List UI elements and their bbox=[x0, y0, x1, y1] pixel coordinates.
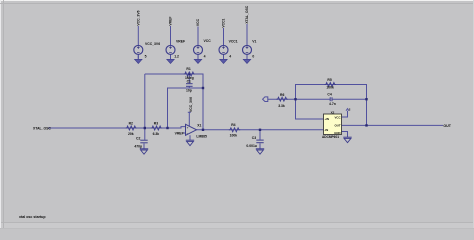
svg-text:VREF: VREF bbox=[175, 132, 184, 136]
svg-text:OUT: OUT bbox=[334, 124, 340, 128]
svg-text:X1: X1 bbox=[197, 124, 201, 128]
svg-text:C4: C4 bbox=[327, 92, 331, 96]
svg-text:0: 0 bbox=[252, 55, 254, 59]
svg-text:C3: C3 bbox=[252, 136, 256, 140]
svg-text:VREF: VREF bbox=[176, 40, 185, 44]
svg-text:OUT: OUT bbox=[443, 124, 451, 128]
svg-text:6.3k: 6.3k bbox=[153, 132, 160, 136]
svg-text:20k: 20k bbox=[128, 132, 134, 136]
svg-text:X2: X2 bbox=[331, 111, 335, 115]
svg-text:XTAL_OSC: XTAL_OSC bbox=[33, 126, 51, 130]
svg-text:+: + bbox=[187, 125, 189, 129]
svg-text:+IN: +IN bbox=[324, 117, 329, 121]
svg-text:xtal osc startup: xtal osc startup bbox=[19, 215, 46, 219]
svg-text:5: 5 bbox=[145, 55, 147, 59]
svg-text:V1: V1 bbox=[252, 39, 256, 43]
svg-text:VCC1: VCC1 bbox=[222, 18, 226, 27]
svg-text:100k: 100k bbox=[326, 86, 334, 90]
svg-text:C1: C1 bbox=[187, 80, 191, 84]
svg-text:R1: R1 bbox=[186, 67, 190, 71]
svg-text:R2: R2 bbox=[129, 121, 133, 125]
svg-text:VCC_3V6: VCC_3V6 bbox=[145, 42, 160, 46]
svg-text:VCC_3V6: VCC_3V6 bbox=[136, 10, 140, 25]
svg-text:VCC1: VCC1 bbox=[229, 40, 238, 44]
svg-text:VCC: VCC bbox=[334, 115, 341, 119]
svg-text:LM885: LM885 bbox=[196, 134, 207, 138]
svg-text:470p: 470p bbox=[134, 144, 142, 148]
svg-text:4: 4 bbox=[229, 55, 231, 59]
svg-text:3.3k: 3.3k bbox=[278, 104, 285, 108]
svg-text:0.001u: 0.001u bbox=[246, 144, 257, 148]
svg-text:R4: R4 bbox=[231, 123, 235, 127]
svg-text:1.2: 1.2 bbox=[174, 55, 179, 59]
svg-text:-IN: -IN bbox=[324, 128, 328, 132]
svg-text:100k: 100k bbox=[230, 134, 238, 138]
svg-text:10p: 10p bbox=[186, 89, 192, 93]
svg-text:R6: R6 bbox=[280, 93, 284, 97]
svg-text:C2: C2 bbox=[136, 136, 140, 140]
svg-text:VREF: VREF bbox=[169, 17, 173, 26]
svg-text:XTAL_OSC: XTAL_OSC bbox=[245, 5, 249, 23]
svg-text:R5: R5 bbox=[327, 78, 331, 82]
svg-text:VCC: VCC bbox=[196, 18, 200, 26]
svg-text:4.7n: 4.7n bbox=[329, 102, 336, 106]
svg-text:ADCMP601: ADCMP601 bbox=[322, 135, 339, 139]
svg-text:VCC: VCC bbox=[204, 39, 212, 43]
svg-text:R3: R3 bbox=[154, 121, 158, 125]
svg-text:4: 4 bbox=[204, 55, 206, 59]
svg-text:VCC_3V6: VCC_3V6 bbox=[189, 97, 193, 112]
